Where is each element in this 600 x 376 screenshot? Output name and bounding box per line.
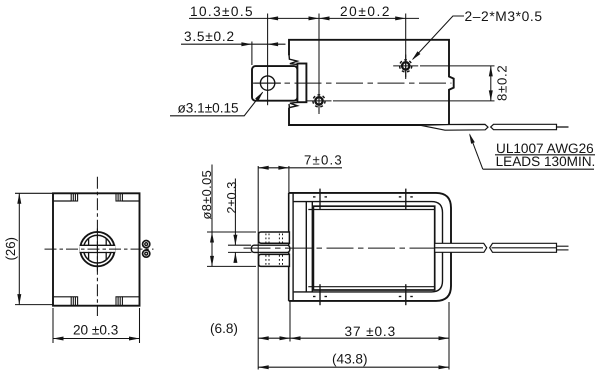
dimension 37±0.3 and (6.8) [210,302,449,370]
solenoid body (top view) outline [289,40,454,125]
dimension 20±0.2 [319,4,406,21]
dimension 8±0.2 [333,65,510,101]
centerline screw hole 1 [318,14,320,115]
svg-text:3.5±0.2: 3.5±0.2 [184,29,235,44]
bottom flange line [53,296,140,298]
leader 2-2*M3*0.5 [410,9,542,62]
spring clip zigzag top [289,55,298,65]
spring clip zigzag bottom [289,102,298,107]
stake tab top-right [116,193,122,201]
svg-text:20±0.2: 20±0.2 [340,4,391,19]
plunger tongue [251,245,289,252]
vertical extension line through plunger hole [267,14,269,106]
lead wires (side view) seg1 [435,243,487,252]
dimension 3.5±0.2 [181,29,286,46]
dimension 2±0.3 [224,179,251,263]
svg-text:2–2*M3*0.5: 2–2*M3*0.5 [465,9,543,24]
screw hole M3 #1 [307,90,332,113]
plunger (top view) [252,66,297,101]
lead wires (side view) seg2 [490,243,557,252]
plunger end cap [297,64,306,103]
bracket inner [293,202,442,292]
extension line plunger tip [251,42,253,66]
centerline horizontal (top view) [253,82,451,84]
stake tab bottom-right [116,297,122,306]
svg-text:8±0.2: 8±0.2 [495,65,510,101]
front view centerlines [96,177,98,316]
svg-text:ø8±0.05: ø8±0.05 [199,170,214,220]
bracket outer [289,193,451,301]
leader to wire [470,135,483,170]
dimension 10.3±0.5 [189,4,419,21]
dimension (26) [3,193,53,304]
bobbin flange [305,202,307,292]
svg-text:LEADS 130MIN.: LEADS 130MIN. [496,154,596,169]
svg-text:(26): (26) [3,237,18,260]
centerline screw hole 2 [405,14,407,80]
dimension (43.8) [258,352,449,370]
svg-text:20 ±0.3: 20 ±0.3 [73,322,118,337]
svg-text:ø3.1±0.15: ø3.1±0.15 [178,101,239,116]
stake tab top-left [71,193,77,201]
slot band (front view) [80,246,116,252]
wire grommets (front view) [143,241,150,258]
dimension 20±0.3 (front) [53,308,140,343]
front view body outline [53,193,140,305]
svg-text:7±0.3: 7±0.3 [304,152,343,167]
bracket front plate [288,193,290,301]
pole piece circles (front view) [80,232,114,266]
lead wire segment 1 (top view) [421,124,489,130]
plunger hole circle [260,76,274,90]
stake tab bottom-left [71,297,77,306]
side view centerline [244,247,435,249]
lead wire segment 2 (top view) [491,124,557,129]
plunger (side view) upper half [259,232,290,243]
dimension ø8±0.05 [199,165,256,267]
stake marks on bracket (side view) [313,189,413,306]
leader ø3.1±0.15 [170,90,265,116]
svg-text:(6.8): (6.8) [210,321,238,336]
wire tails (side view) [557,245,569,247]
svg-text:37 ±0.3: 37 ±0.3 [345,324,397,339]
svg-text:(43.8): (43.8) [332,352,368,367]
wire tail (top view) [557,126,569,128]
plunger (side view) lower half [259,254,290,266]
hidden hole lines in plunger [266,234,283,266]
screw hole M3 #2 [393,55,418,78]
svg-text:2±0.3: 2±0.3 [224,182,239,214]
leads note [467,132,595,169]
dimension 7±0.3 [258,152,343,369]
coil outline [313,206,434,290]
svg-text:10.3±0.5: 10.3±0.5 [190,4,254,19]
top flange line [53,200,140,202]
